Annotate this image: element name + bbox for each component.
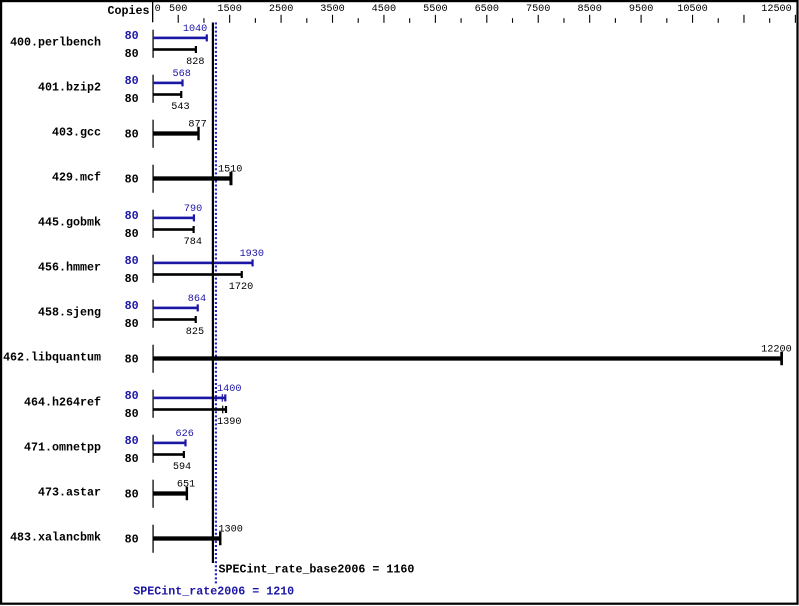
svg-text:80: 80	[125, 299, 139, 313]
svg-text:1500: 1500	[217, 4, 241, 15]
x-axis scale labels	[155, 4, 792, 15]
svg-text:6500: 6500	[475, 4, 499, 15]
benchmark 429.mcf row	[52, 164, 242, 193]
svg-text:790: 790	[184, 204, 202, 215]
svg-text:464.h264ref: 464.h264ref	[24, 396, 101, 410]
svg-text:80: 80	[125, 488, 139, 502]
benchmark 456.hmmer row	[38, 249, 264, 293]
svg-text:543: 543	[171, 102, 189, 113]
svg-text:80: 80	[125, 29, 139, 43]
svg-text:Copies: Copies	[108, 4, 150, 18]
svg-text:0: 0	[155, 4, 161, 15]
svg-text:473.astar: 473.astar	[38, 486, 101, 500]
svg-text:80: 80	[125, 227, 139, 241]
svg-text:458.sjeng: 458.sjeng	[38, 306, 101, 320]
svg-text:12200: 12200	[761, 344, 792, 355]
svg-text:10500: 10500	[677, 4, 708, 15]
svg-text:80: 80	[125, 389, 139, 403]
svg-text:651: 651	[177, 479, 195, 490]
benchmark 464.h264ref row	[24, 384, 241, 428]
svg-text:80: 80	[125, 434, 139, 448]
svg-text:SPECint_rate2006 = 1210: SPECint_rate2006 = 1210	[133, 585, 294, 599]
svg-text:1300: 1300	[218, 524, 242, 535]
axis origin vertical line	[152, 2, 153, 22]
svg-text:784: 784	[184, 237, 202, 248]
svg-text:1040: 1040	[183, 24, 207, 35]
benchmark 400.perlbench row	[10, 24, 208, 68]
svg-text:626: 626	[176, 429, 194, 440]
svg-text:462.libquantum: 462.libquantum	[3, 351, 101, 365]
benchmark 458.sjeng row	[38, 294, 206, 338]
svg-text:80: 80	[125, 407, 139, 421]
svg-text:5500: 5500	[423, 4, 447, 15]
svg-text:1720: 1720	[229, 282, 253, 293]
benchmark 483.xalancbmk row	[10, 524, 243, 553]
benchmark 471.omnetpp row	[24, 429, 194, 473]
svg-text:80: 80	[125, 173, 139, 187]
svg-text:568: 568	[173, 69, 191, 80]
svg-text:1400: 1400	[217, 384, 241, 395]
svg-text:80: 80	[125, 47, 139, 61]
svg-text:400.perlbench: 400.perlbench	[10, 36, 101, 50]
benchmark 445.gobmk row	[38, 204, 202, 248]
svg-text:828: 828	[186, 57, 204, 68]
svg-text:401.bzip2: 401.bzip2	[38, 81, 101, 95]
svg-text:80: 80	[125, 92, 139, 106]
solid black reference line SPECint_rate_base2006 = 1160	[212, 23, 214, 564]
svg-text:80: 80	[125, 533, 139, 547]
svg-text:SPECint_rate_base2006 = 1160: SPECint_rate_base2006 = 1160	[219, 563, 415, 577]
svg-text:12500: 12500	[761, 4, 792, 15]
svg-text:80: 80	[125, 452, 139, 466]
svg-text:1390: 1390	[217, 417, 241, 428]
benchmark 462.libquantum row	[3, 344, 792, 373]
svg-text:4500: 4500	[372, 4, 396, 15]
benchmark 401.bzip2 row	[38, 69, 191, 113]
svg-text:429.mcf: 429.mcf	[52, 171, 101, 185]
svg-text:80: 80	[125, 353, 139, 367]
svg-text:445.gobmk: 445.gobmk	[38, 216, 101, 230]
svg-text:3500: 3500	[320, 4, 344, 15]
svg-text:864: 864	[188, 294, 206, 305]
dotted blue reference line SPECint_rate2006 = 1210	[215, 23, 217, 586]
svg-text:594: 594	[173, 462, 191, 473]
benchmark 473.astar row	[38, 479, 195, 508]
benchmark 403.gcc row	[52, 119, 207, 148]
svg-text:80: 80	[125, 272, 139, 286]
svg-text:483.xalancbmk: 483.xalancbmk	[10, 531, 101, 545]
x-axis tick marks	[178, 15, 796, 23]
svg-text:80: 80	[125, 254, 139, 268]
svg-text:456.hmmer: 456.hmmer	[38, 261, 101, 275]
svg-text:8500: 8500	[577, 4, 601, 15]
svg-text:500: 500	[169, 4, 187, 15]
svg-text:825: 825	[186, 327, 204, 338]
svg-text:80: 80	[125, 74, 139, 88]
svg-text:1930: 1930	[240, 249, 264, 260]
svg-text:471.omnetpp: 471.omnetpp	[24, 441, 101, 455]
svg-text:9500: 9500	[629, 4, 653, 15]
svg-text:80: 80	[125, 317, 139, 331]
svg-text:877: 877	[188, 119, 206, 130]
svg-text:80: 80	[125, 209, 139, 223]
svg-text:2500: 2500	[269, 4, 293, 15]
svg-text:80: 80	[125, 128, 139, 142]
svg-text:403.gcc: 403.gcc	[52, 126, 101, 140]
svg-text:7500: 7500	[526, 4, 550, 15]
svg-text:1510: 1510	[218, 164, 242, 175]
